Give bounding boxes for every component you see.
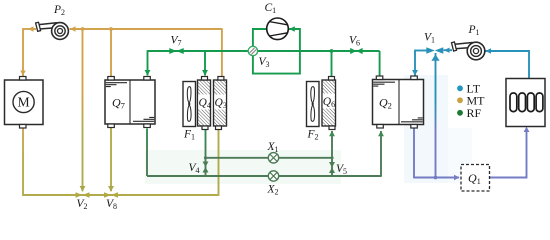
- wire LT vertical below V1 (teal to violet) with up arrow: [431, 53, 439, 178]
- heat exchanger Q4: [198, 77, 211, 130]
- wire RF green main horizontal line: [148, 50, 380, 52]
- node junction sage tee at V5 branch: [330, 156, 333, 159]
- svg-text:RF: RF: [467, 106, 482, 120]
- wire LT teal horizontal into valve V1 from corner: [415, 50, 427, 52]
- four-way valve V3: [248, 46, 257, 55]
- motor M box: [5, 77, 44, 129]
- wire LT violet from Q1 right, up into display case bottom: [490, 127, 530, 178]
- wire MT gold top-left segment into pump P2 flange: [23, 26, 36, 31]
- pump P2: [36, 22, 69, 39]
- wire MT gold vertical into Q7 top-left port: [110, 29, 112, 77]
- pump P1: [452, 42, 485, 60]
- wire RF green vertical into Q7 top-right port: [145, 50, 151, 76]
- node junction green line at Q6 branch: [330, 49, 334, 53]
- wire RF sage vertical Q7 bottom-right down to lower line: [146, 129, 148, 177]
- wire LT teal suction from display case top into P1: [485, 48, 529, 78]
- node junction top line at V8 branch: [109, 27, 113, 31]
- fan F2: [307, 82, 320, 127]
- wire MT olive vertical Q3 bottom port to bottom line: [218, 129, 220, 196]
- dashed box Q1: [461, 165, 490, 192]
- wire LT violet vertical Q2 bottom-right down: [413, 128, 415, 178]
- wire MT vertical branch through valve V2 (gold to olive): [80, 29, 86, 192]
- wire RF compressor loop: C1 right side with arrow, down and back to V3 bottom: [253, 26, 300, 73]
- valve V1: [426, 47, 443, 53]
- wire MT gold right vertical into Q3 top port: [221, 28, 223, 77]
- valve V6: [350, 48, 362, 54]
- expansion device X1: [268, 153, 278, 163]
- wire MT olive vertical Q7 bottom-left port to valve V8: [108, 128, 114, 192]
- faint background tint middle band: [145, 150, 341, 184]
- wire RF sage vertical Q4 bottom through valve V4: [205, 129, 207, 177]
- display case box: [506, 79, 545, 127]
- valve V5: [329, 162, 335, 173]
- valve V2: [76, 192, 90, 198]
- valve V4: [203, 162, 209, 173]
- wire RF sage vertical Q6 bottom through valve V5: [329, 131, 335, 176]
- valve V8: [104, 192, 118, 198]
- legend MT: [457, 93, 485, 107]
- node junction sage tee at V4 branch: [204, 156, 207, 159]
- wire MT gold top horizontal from pump P2 to right corner: [70, 26, 222, 31]
- expansion device X2: [268, 171, 278, 181]
- wire MT left vertical below motor M to bottom line (gold to olive): [22, 129, 24, 196]
- heat exchanger Q6: [322, 77, 336, 130]
- wire MT olive bottom horizontal line: [22, 194, 218, 196]
- fan F1: [183, 82, 196, 127]
- wire RF sage middle horizontal line through X1: [206, 157, 333, 159]
- heat exchanger Q2: [373, 76, 424, 128]
- node junction top line at V2 branch: [81, 27, 85, 31]
- heat exchanger Q3: [214, 77, 227, 130]
- legend RF: [457, 106, 481, 120]
- valve V7: [169, 48, 183, 54]
- wire MT gold left vertical P2 to motor M: [20, 28, 25, 76]
- wire LT teal vertical into Q2 top-right port: [412, 50, 418, 76]
- wire RF green vertical into Q4 top port: [202, 51, 208, 76]
- wire RF green vertical into Q2 top-left port: [379, 51, 381, 77]
- svg-text:M: M: [18, 95, 30, 110]
- faint background tint right zone: [404, 75, 448, 183]
- heat exchanger Q7: [105, 77, 155, 128]
- legend LT: [457, 81, 481, 95]
- wire LT teal discharge P1 to V1 with arrow: [444, 48, 453, 53]
- compressor C1: [267, 18, 289, 40]
- wire RF sage vertical up into Q2 bottom-left port: [378, 131, 384, 177]
- wire RF compressor loop: V3 up and into C1 left: [253, 29, 267, 51]
- wire RF sage lower horizontal line through X2: [147, 175, 381, 177]
- wire LT violet horizontal into Q1 with arrow: [413, 175, 459, 180]
- wire RF green vertical Q6 top port to main line: [331, 51, 333, 77]
- node junction violet line below V1: [434, 176, 438, 180]
